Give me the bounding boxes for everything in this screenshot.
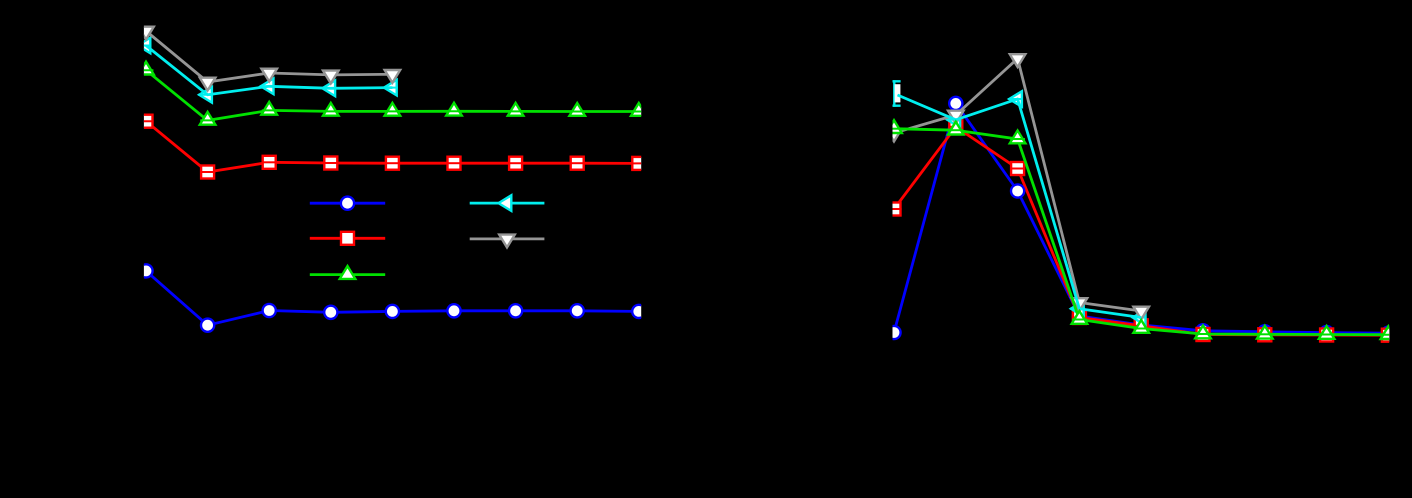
right plot: gray down-triangle markers (886, 54, 1149, 319)
right plot: green line (894, 129, 1388, 335)
left plot: green up-triangle markers (138, 62, 646, 125)
right plot: red line (894, 127, 1388, 335)
legend entry: cyan left-triangle (470, 195, 545, 211)
left plot: red line (146, 121, 639, 172)
right plot: red square markers (886, 120, 1396, 341)
legend entry: green up-triangle (310, 266, 385, 279)
right plot: green up-triangle markers (886, 120, 1396, 339)
legend entry: red square (310, 232, 385, 245)
right plot: gray line (894, 59, 1141, 312)
right plot: blue line (894, 103, 1388, 333)
right axes plot area (886, 54, 1396, 342)
right plot: cyan left-triangle markers (892, 80, 1147, 325)
left axes plot area (137, 27, 647, 332)
left plot: blue line (146, 271, 639, 325)
right plot: cyan line (898, 95, 1142, 318)
left plot: gray down-triangle markers (138, 27, 400, 91)
left plot: cyan line (146, 46, 392, 95)
left plot: blue circle markers (139, 264, 645, 332)
legend entry: gray down-triangle (470, 235, 545, 248)
left plot: cyan left-triangle markers (137, 38, 398, 103)
left plot: gray line (146, 31, 392, 82)
legend entry: blue circle (310, 197, 385, 210)
left plot: red square markers (138, 115, 646, 179)
left plot: green line (146, 70, 639, 120)
right plot: blue circle markers (887, 97, 1395, 340)
